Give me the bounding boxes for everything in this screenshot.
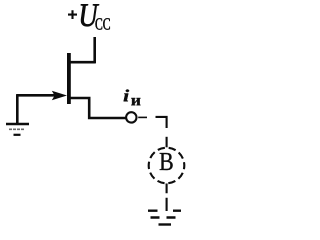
label i_и [124,90,141,106]
wire input [17,94,57,97]
wire output step [71,98,126,118]
power label +Ucc [68,4,110,29]
ground bottom [148,211,181,225]
wire input down lead [16,94,19,123]
node terminal circle [126,112,136,122]
wire device bottom lead [166,184,168,212]
transistor VT1 emitter arrow [52,91,67,101]
device B dashed circle [149,148,185,184]
dashed wire to device [138,116,166,147]
ground left [6,124,29,135]
wire collector [70,61,96,64]
device B letter [160,153,173,170]
wire Ucc lead [93,37,96,63]
transistor VT1 base bar [67,53,71,104]
